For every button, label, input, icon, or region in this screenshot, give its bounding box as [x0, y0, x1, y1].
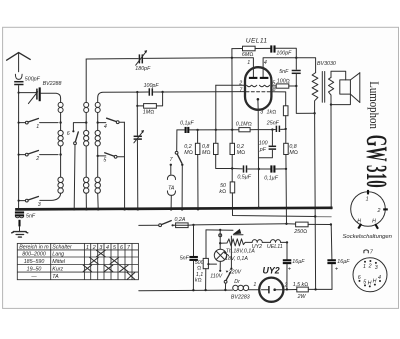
node grid cap right: [161, 91, 163, 93]
resistor 250Ohm: [287, 222, 331, 235]
mains bottom rail: [139, 289, 233, 292]
svg-text:kΩ: kΩ: [195, 277, 202, 283]
tube anode plates: [249, 77, 269, 79]
svg-text:Dr: Dr: [234, 279, 240, 285]
svg-text:180pF: 180pF: [135, 66, 151, 72]
svg-text:3: 3: [375, 265, 378, 271]
svg-text:TA: TA: [52, 274, 59, 280]
svg-text:1MΩ: 1MΩ: [143, 109, 154, 115]
svg-text:16µF: 16µF: [337, 259, 350, 265]
node screen feed bottom: [314, 288, 316, 290]
wire antenna down-line: [18, 86, 20, 210]
node 250Ohm right: [330, 223, 332, 225]
switch 110/220V: [224, 236, 241, 290]
node 16uF left bottom: [286, 288, 288, 290]
svg-text:UY2: UY2: [252, 244, 262, 250]
svg-text:+: +: [335, 266, 339, 272]
switch 3: [18, 197, 41, 209]
svg-text:5nF: 5nF: [279, 69, 289, 75]
svg-text:3: 3: [38, 202, 41, 208]
chassis bus: [17, 208, 332, 210]
capacitor 0.5uF: [232, 165, 259, 180]
node 250Ohm left: [285, 223, 287, 225]
resistor 1kOhm: [267, 106, 289, 128]
svg-text:1: 1: [36, 124, 39, 130]
wire selector node: [206, 229, 233, 231]
tube cathode: [257, 98, 260, 110]
svg-text:100pF: 100pF: [144, 83, 160, 89]
table row TA: [30, 273, 134, 281]
svg-text:2: 2: [284, 283, 288, 289]
capacitor 100pF coupling: [137, 83, 162, 96]
node antenna/trimmer branch: [18, 92, 20, 94]
capacitor 100pF cathode: [259, 130, 277, 158]
node L3 tap 1: [97, 121, 99, 123]
svg-text:500pF: 500pF: [25, 76, 41, 82]
resistor 0.2MOhm AF: [184, 130, 200, 209]
svg-text:6: 6: [120, 245, 123, 251]
socket UEL11 base: [353, 249, 387, 291]
lamp holder contact: [219, 234, 222, 237]
wire secondary bottom to speaker: [331, 94, 350, 105]
node 0.8M top: [215, 129, 217, 131]
svg-text:25nF: 25nF: [266, 120, 280, 126]
dial lamp 18V 0.1A: [210, 249, 226, 279]
node secondary bottom: [330, 103, 332, 105]
pin 8: [272, 87, 286, 106]
svg-text:100Ω: 100Ω: [277, 78, 290, 84]
mains switch: [139, 221, 174, 227]
svg-text:UEL11: UEL11: [267, 244, 283, 250]
node 5nF top: [295, 57, 297, 59]
wire B+ rail: [283, 289, 297, 291]
wire L3 tap1 to switch 4 contact: [98, 122, 106, 124]
svg-text:kΩ: kΩ: [219, 189, 226, 195]
svg-text:GW 310: GW 310: [359, 135, 392, 188]
barretter Th 18V 0.1A: [220, 239, 255, 262]
capacitor 0.1uF coupling: [180, 120, 239, 133]
svg-text:MΩ: MΩ: [289, 150, 297, 156]
node 0.5uF junction: [231, 167, 233, 169]
resistor 6MOhm: [232, 46, 270, 58]
node 25nF right / 1k bottom: [285, 128, 287, 130]
resistor 0.2MOhm-3: [230, 130, 245, 182]
table header labels: [19, 245, 131, 251]
svg-text:Ω: Ω: [197, 266, 201, 272]
fuse 0.2A: [173, 217, 194, 228]
svg-text:2: 2: [368, 263, 372, 269]
transformer secondary: [329, 77, 334, 95]
svg-text:Lumophon: Lumophon: [367, 81, 381, 129]
node 0.2M top: [196, 129, 198, 131]
resistor 0.1MOhm: [236, 121, 271, 132]
svg-text:6MΩ: 6MΩ: [242, 52, 253, 58]
wire screen vertical: [315, 113, 316, 289]
coil L3 middle winding: [95, 123, 100, 156]
capacitor 25nF: [266, 120, 286, 132]
wire grid to tube pin 7: [163, 91, 245, 93]
svg-text:H: H: [357, 218, 361, 224]
svg-text:16µF: 16µF: [292, 259, 305, 265]
svg-text:4: 4: [106, 245, 109, 251]
coil L2 lower winding: [84, 177, 89, 209]
svg-text:MΩ: MΩ: [184, 150, 192, 156]
capacitor 100pF anode: [271, 45, 296, 57]
speaker: [340, 73, 360, 103]
coil L2 top winding: [84, 102, 89, 122]
coil L3 top winding: [95, 102, 100, 122]
node heater end: [286, 241, 288, 243]
svg-text:Kurz: Kurz: [52, 267, 63, 273]
transformer BV3030 primary: [312, 61, 336, 114]
variable capacitor 180pF: [86, 50, 232, 72]
table row Lang: [22, 250, 105, 257]
switch 4: [104, 118, 125, 130]
wire 0.1uF/0.1MOhm rail: [177, 129, 184, 131]
svg-text:0,5µF: 0,5µF: [237, 174, 251, 180]
node L1 tap 2: [59, 153, 61, 155]
capacitor 16uF right: [327, 225, 350, 290]
node 25nF left: [271, 128, 273, 130]
node cathode wire: [258, 168, 260, 170]
svg-text:MΩ: MΩ: [237, 150, 245, 156]
resistor 1.5kOhm 2W: [293, 282, 332, 300]
coil L1 middle winding: [58, 123, 63, 155]
capacitor 500pF: [14, 76, 40, 84]
svg-text:5: 5: [272, 80, 275, 86]
svg-text:3: 3: [260, 110, 263, 116]
tube grid 2 dashed: [246, 91, 270, 93]
svg-text:Mittel: Mittel: [52, 259, 65, 265]
capacitor 5nF to ground: [15, 213, 36, 220]
switch 1: [18, 119, 59, 130]
svg-text:0,1µF: 0,1µF: [264, 176, 278, 182]
svg-text:0,2A: 0,2A: [175, 217, 186, 223]
svg-text:100pF: 100pF: [276, 50, 292, 56]
node L3 tap 2: [97, 155, 99, 157]
voltage selector plug: [233, 229, 243, 235]
coil L2 middle winding: [84, 123, 89, 178]
node fuse output: [192, 224, 194, 226]
svg-text:2: 2: [238, 80, 242, 86]
svg-text:—: —: [30, 274, 37, 280]
svg-text:1: 1: [247, 60, 250, 66]
svg-text:185–590: 185–590: [24, 259, 45, 265]
svg-text:0,1µF: 0,1µF: [180, 120, 194, 126]
svg-text:1kΩ: 1kΩ: [267, 109, 277, 115]
wire to trimmer: [19, 92, 36, 94]
svg-text:Schalter: Schalter: [52, 245, 72, 251]
svg-text:Lang: Lang: [52, 252, 64, 258]
pin 2: [216, 80, 245, 86]
svg-text:UEL11: UEL11: [246, 38, 268, 45]
svg-text:5: 5: [103, 158, 106, 164]
svg-text:8: 8: [273, 87, 276, 93]
svg-text:2: 2: [92, 245, 96, 251]
svg-text:110V: 110V: [210, 274, 222, 280]
svg-text:BV2288: BV2288: [43, 81, 62, 87]
wire grid vertical: [231, 49, 233, 130]
node L2 tap: [85, 121, 87, 123]
switch 7 line from 0.1uF: [176, 130, 178, 152]
capacitor 16uF left: [283, 242, 305, 289]
node barretter tap: [219, 231, 221, 249]
wire L3 tap2 to switch 5 contact: [98, 155, 106, 157]
svg-text:6: 6: [67, 131, 70, 137]
resistor 0.8MOhm grid: [202, 85, 232, 168]
svg-text:1: 1: [86, 245, 89, 251]
svg-text:Th.18V,0,1A: Th.18V,0,1A: [226, 248, 256, 254]
svg-text:250Ω: 250Ω: [293, 229, 307, 235]
svg-text:3: 3: [99, 245, 102, 251]
switch 5: [103, 153, 124, 164]
svg-text:100: 100: [259, 141, 268, 147]
pin 4: [263, 58, 296, 77]
capacitor 5nF anode: [279, 58, 301, 86]
svg-text:Bereich in m: Bereich in m: [19, 245, 49, 251]
resistor 1.1kOhm tapped 500Ohm: [195, 230, 217, 290]
node bus junctions: [17, 208, 20, 211]
capacitor 0.1uF output: [259, 165, 286, 181]
heater UY2: [252, 240, 263, 250]
switch 2: [18, 151, 59, 162]
node primary bottom: [313, 112, 315, 114]
svg-text:2W: 2W: [297, 294, 307, 300]
svg-text:TA: TA: [168, 185, 175, 191]
svg-text:4: 4: [264, 60, 267, 66]
coil L3 top lead to grid wire: [98, 92, 136, 102]
svg-text:UY2: UY2: [263, 266, 280, 276]
antenna jack: [15, 74, 22, 79]
coil L3 lower winding: [95, 156, 100, 209]
svg-text:MΩ: MΩ: [202, 150, 210, 156]
wire to primary bottom: [296, 86, 314, 113]
switch 6: [67, 131, 79, 209]
heater UEL11: [262, 240, 287, 250]
coil L1 lower winding: [40, 155, 64, 201]
table row Kurz: [27, 265, 129, 273]
svg-text:Sockelschaltungen: Sockelschaltungen: [343, 234, 393, 240]
node grid/180pF: [231, 57, 233, 59]
coil L1 top winding: [58, 98, 63, 123]
resistor 50kOhm: [219, 182, 315, 217]
wire switch 4/5 common down: [123, 122, 125, 209]
capacitor 5nF mains: [180, 225, 198, 290]
resistor 0.8MOhm screen: [284, 130, 298, 224]
svg-text:0,1MΩ: 0,1MΩ: [236, 121, 252, 127]
switch 7: [170, 151, 184, 209]
wire to output transformer primary top: [296, 58, 315, 73]
table row Mittel: [24, 257, 119, 265]
node 0.1uF right: [285, 168, 287, 170]
ground: [12, 220, 28, 237]
node switch 6 contact: [72, 130, 74, 132]
svg-text:5: 5: [113, 245, 116, 251]
variable capacitor tuning: [134, 106, 145, 209]
svg-text:800–2000: 800–2000: [22, 252, 46, 258]
node grid cap left: [136, 91, 138, 93]
svg-text:4: 4: [104, 124, 107, 130]
choke Dr BV2283: [231, 279, 259, 300]
coil L2 top lead: [85, 59, 87, 102]
wire L2 tap to switch 6 contact: [73, 123, 86, 131]
svg-text:19–50: 19–50: [27, 267, 42, 273]
svg-text:2: 2: [35, 156, 39, 162]
rectifier UY2: [253, 266, 287, 302]
svg-text:+: +: [288, 266, 292, 272]
svg-text:1,5 kΩ: 1,5 kΩ: [293, 282, 309, 288]
node 0.2M-3 top: [231, 129, 233, 131]
pin 3: [258, 110, 263, 208]
svg-text:2: 2: [377, 208, 381, 214]
wire secondary top to speaker: [331, 71, 346, 80]
antenna: [7, 53, 31, 72]
band switch table: [17, 243, 138, 279]
terminal TA: [167, 165, 175, 209]
svg-text:5nF: 5nF: [26, 213, 36, 219]
pin 5: [272, 80, 277, 86]
svg-text:BV2283: BV2283: [231, 295, 250, 301]
node rail junctions: [192, 289, 194, 291]
tube UEL11 envelope: [245, 38, 271, 110]
node 100Ohm/5nF: [295, 85, 297, 87]
svg-text:1: 1: [363, 264, 366, 270]
node lamp top: [219, 229, 221, 231]
wire trimmer to L1 top: [41, 93, 61, 98]
svg-text:1: 1: [366, 197, 369, 203]
socket UY2 base: [351, 190, 388, 229]
wire faint link to HT: [315, 216, 331, 218]
svg-text:18V, 0,1A: 18V, 0,1A: [225, 256, 248, 262]
svg-text:H: H: [372, 219, 376, 225]
svg-text:4: 4: [378, 275, 381, 281]
svg-text:5nF: 5nF: [180, 256, 190, 262]
svg-text:pF: pF: [259, 147, 267, 153]
transformer core: [322, 72, 324, 103]
tube grid 1: [247, 85, 270, 86]
node L1 tap 1: [59, 121, 61, 123]
resistor 100Ohm: [276, 78, 296, 88]
wire fuse to 250Ohm: [194, 224, 287, 225]
pin 1: [232, 58, 254, 77]
wire HT vertical right: [330, 105, 332, 208]
svg-text:1: 1: [253, 282, 256, 288]
svg-text:BV3030: BV3030: [317, 61, 336, 67]
trimmer capacitor BV2288: [28, 81, 61, 103]
resistor 1MOhm grid leak: [136, 92, 162, 115]
node screen line: [314, 215, 316, 217]
